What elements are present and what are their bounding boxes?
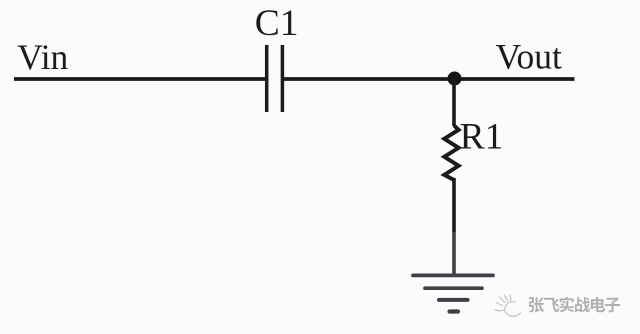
wire node to resistor [452, 79, 456, 126]
svg-text:Vin: Vin [17, 37, 68, 77]
watermark text 张飞实战电子 [529, 297, 620, 313]
wire resistor to ground upper [452, 178, 456, 232]
svg-text:R1: R1 [460, 117, 504, 158]
watermark logo doodle [495, 295, 520, 317]
svg-text:C1: C1 [255, 3, 299, 44]
wire input segment [14, 77, 266, 81]
ground [413, 275, 493, 311]
resistor R1 zigzag [444, 126, 458, 181]
wire output segment [284, 77, 575, 81]
capacitor C1 [267, 45, 283, 112]
node junction dot [448, 72, 462, 86]
wire resistor to ground lower [452, 232, 456, 275]
svg-text:Vout: Vout [496, 37, 563, 77]
